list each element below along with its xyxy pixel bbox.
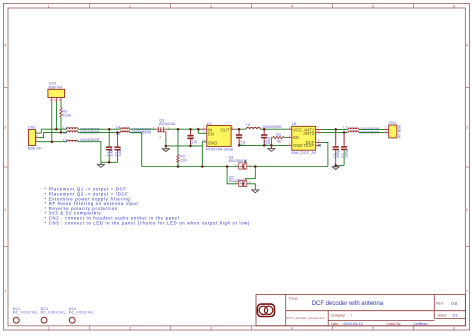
svg-text:DCF decoder with antenna: DCF decoder with antenna xyxy=(312,301,384,307)
no-connect Q1 pin3 xyxy=(244,160,246,162)
wire U2 GND drop to bottom rail xyxy=(202,142,206,167)
inductor L4 xyxy=(116,126,152,132)
svg-text:MC_FIDUCIAL: MC_FIDUCIAL xyxy=(13,311,38,315)
svg-text:4: 4 xyxy=(291,326,293,330)
svg-text:5: 5 xyxy=(372,326,374,330)
svg-text:VCC: VCC xyxy=(293,128,302,133)
svg-text:RT9073N-33GB: RT9073N-33GB xyxy=(206,148,234,152)
ground under Q3 gate xyxy=(162,146,169,152)
svg-text:1: 1 xyxy=(4,289,6,293)
inductor L7 xyxy=(343,126,379,131)
inductor L2 xyxy=(63,131,100,135)
svg-text:4: 4 xyxy=(4,44,6,48)
connector CN1 xyxy=(384,121,401,139)
svg-text:2: 2 xyxy=(129,4,131,8)
svg-text:0E: 0E xyxy=(277,140,282,144)
svg-text:Drawn By:: Drawn By: xyxy=(387,322,402,326)
svg-text:/: / xyxy=(351,314,352,318)
wire mid rail left xyxy=(44,131,67,133)
svg-text:1u: 1u xyxy=(193,140,197,144)
svg-text:100E: 100E xyxy=(62,114,71,118)
svg-text:2: 2 xyxy=(4,208,6,212)
svg-text:L6: L6 xyxy=(246,123,250,127)
wire U2 OUT rail xyxy=(235,128,246,130)
svg-text:U1: U1 xyxy=(292,122,297,126)
svg-text:TEST: TEST xyxy=(303,143,314,148)
svg-text:100n: 100n xyxy=(267,137,271,145)
svg-text:KIA2500: KIA2500 xyxy=(229,159,244,163)
svg-text:3: 3 xyxy=(466,126,468,130)
capacitor C5 xyxy=(261,129,271,145)
svg-text:GND: GND xyxy=(293,143,302,148)
fiducial MC4 xyxy=(69,307,94,323)
svg-text:Date:: Date: xyxy=(331,322,339,326)
transistor Q3 xyxy=(156,118,176,139)
frame zone ticks left right xyxy=(4,88,470,247)
svg-text:3: 3 xyxy=(4,126,6,130)
svg-text:B3B-XH: B3B-XH xyxy=(49,85,63,89)
svg-text:CN1: CN1 xyxy=(389,121,397,125)
op-amp U2 regulator RT9073N xyxy=(202,122,235,152)
svg-text:100p: 100p xyxy=(344,150,348,158)
frame zone ticks top xyxy=(90,4,414,9)
wire R3 to mid rail xyxy=(60,117,62,132)
inductor L8 xyxy=(348,131,380,135)
ground under R1 xyxy=(268,145,275,151)
resistor R3 xyxy=(60,108,72,118)
transistor Q1 xyxy=(229,155,252,169)
no-connect TEST pin xyxy=(318,144,320,146)
svg-text:100n: 100n xyxy=(110,148,114,156)
wire L7 to CN1 xyxy=(359,128,384,130)
svg-text:1: 1 xyxy=(48,326,50,330)
svg-text:6: 6 xyxy=(453,326,455,330)
capacitor C6 xyxy=(333,129,340,165)
svg-text:EN: EN xyxy=(208,132,214,137)
inductor L1 xyxy=(63,126,100,131)
junction dots xyxy=(51,128,346,168)
title block xyxy=(256,294,465,325)
svg-text:6: 6 xyxy=(453,4,455,8)
wire mid rail to L5 xyxy=(78,131,121,133)
svg-text:1/1: 1/1 xyxy=(452,313,457,317)
capacitor C1 xyxy=(106,129,114,162)
svg-text:B3B-XH: B3B-XH xyxy=(28,147,42,151)
wire Q1 gate branch down to Q2 xyxy=(227,167,237,184)
svg-text:2: 2 xyxy=(466,208,468,212)
logo xyxy=(257,304,274,316)
svg-text:* CN3 : connect to LED in the: * CN3 : connect to LED in the panel (cho… xyxy=(45,220,251,225)
frame zone ticks bottom xyxy=(90,326,414,330)
svg-text:U2: U2 xyxy=(207,122,212,126)
svg-text:L2: L2 xyxy=(63,131,67,135)
svg-text:Company:: Company: xyxy=(331,314,346,318)
wire CN3 pin1 to L3 rail xyxy=(51,102,53,142)
svg-text:L4: L4 xyxy=(116,126,120,130)
connector CN3 xyxy=(48,82,65,102)
wire bottom rail xyxy=(142,166,237,168)
notes text block xyxy=(45,187,251,226)
wire CN3 pin2 to top rail xyxy=(55,102,57,129)
wire Q3 gate to local gnd line xyxy=(165,136,167,146)
wire top rail left xyxy=(41,128,66,130)
wire CN2 pin3 along L3 rail xyxy=(38,141,66,143)
svg-text:LieBtrau: LieBtrau xyxy=(414,322,428,326)
svg-text:B2B-XH: B2B-XH xyxy=(397,126,401,139)
fiducial MC2 xyxy=(13,307,38,323)
svg-text:4: 4 xyxy=(466,44,468,48)
wire cap bottoms bus xyxy=(101,161,118,163)
wire top rail to L4 xyxy=(78,128,121,130)
svg-text:1u: 1u xyxy=(242,141,246,145)
capacitor C7 xyxy=(341,132,348,165)
connector CN2 xyxy=(28,125,42,150)
wire ANT1 rail xyxy=(322,128,349,130)
svg-text:TITLE:: TITLE: xyxy=(289,297,299,301)
capacitor C2 xyxy=(114,132,122,162)
wire DCF drop xyxy=(322,142,328,166)
svg-text:4: 4 xyxy=(291,4,293,8)
wire EN tie to IN xyxy=(198,129,206,133)
resistor R1 xyxy=(271,133,288,145)
inductor L6 xyxy=(246,123,282,129)
svg-text:REV:: REV: xyxy=(436,302,443,306)
wire Q2 out to ground xyxy=(249,184,256,190)
wire L4 to Q3 source xyxy=(130,128,156,130)
svg-text:Sheet:: Sheet: xyxy=(438,313,447,317)
svg-text:2019-04-13: 2019-04-13 xyxy=(343,322,362,326)
wire Q3 drain to U2 IN xyxy=(168,128,202,130)
wire L5 down to bottom rail xyxy=(130,132,142,166)
svg-text:100n: 100n xyxy=(118,148,122,156)
wire L6 to U1 VCC xyxy=(260,128,288,130)
fiducial MC3 xyxy=(41,307,66,323)
svg-text:L1: L1 xyxy=(63,126,67,130)
wire right gnd line xyxy=(239,144,288,146)
svg-text:MC_FIDUCIAL: MC_FIDUCIAL xyxy=(69,311,94,315)
svg-text:ANT2: ANT2 xyxy=(303,131,314,136)
svg-text:OUT: OUT xyxy=(221,127,230,132)
IC U1 EMI_DCF_3V xyxy=(288,122,322,155)
wire L3 to ground corner xyxy=(78,142,101,163)
wire antenna cap bottoms xyxy=(336,164,344,166)
wire Q1 out to Q2 top jog xyxy=(245,167,255,181)
svg-text:1: 1 xyxy=(48,4,50,8)
svg-text:3: 3 xyxy=(210,4,212,8)
ground under antenna caps xyxy=(332,165,339,169)
svg-text:5: 5 xyxy=(372,4,374,8)
svg-text:dcf77_decoder_antenna.sch: dcf77_decoder_antenna.sch xyxy=(287,316,326,320)
ground under C1 C2 xyxy=(97,162,104,167)
capacitor C3 xyxy=(187,129,197,146)
svg-text:L3: L3 xyxy=(63,138,67,142)
svg-text:1: 1 xyxy=(466,289,468,293)
wire local gnd line xyxy=(166,145,202,147)
svg-text:L7: L7 xyxy=(343,126,347,130)
wire CN2 pin1 jog up to top rail xyxy=(38,129,41,133)
inductor L3 xyxy=(63,138,100,142)
svg-text:GND: GND xyxy=(208,141,217,146)
svg-text:2: 2 xyxy=(129,326,131,330)
capacitor C4 xyxy=(236,129,246,145)
svg-text:100p: 100p xyxy=(336,150,340,158)
transistor Q2 xyxy=(229,176,252,187)
svg-text:MC_FIDUCIAL: MC_FIDUCIAL xyxy=(41,311,66,315)
svg-text:22K: 22K xyxy=(180,158,187,162)
wire CN3 pin3 to R3 xyxy=(60,102,62,108)
svg-text:0.0: 0.0 xyxy=(451,301,457,306)
ground under Q2 xyxy=(252,189,259,192)
resistor R2 xyxy=(177,129,188,166)
wire ANT2 rail xyxy=(322,131,349,133)
svg-text:EN: EN xyxy=(293,135,299,140)
inductor L5 xyxy=(116,131,152,136)
svg-text:R1: R1 xyxy=(276,133,281,137)
svg-text:CN2: CN2 xyxy=(28,125,36,129)
wire CN2 pin2 jog up to mid rail xyxy=(38,132,43,137)
svg-text:EMI_DCF_3V: EMI_DCF_3V xyxy=(292,150,317,155)
svg-text:3: 3 xyxy=(210,326,212,330)
wire L8 to CN1 xyxy=(359,131,384,133)
